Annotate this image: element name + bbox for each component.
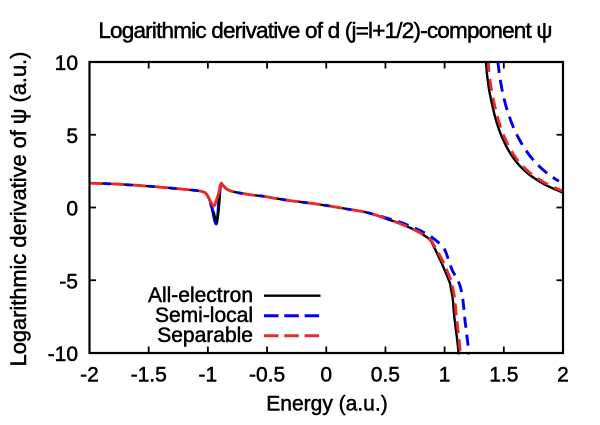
- svg-text:10: 10: [55, 52, 78, 75]
- svg-text:1.5: 1.5: [489, 363, 518, 386]
- svg-text:Logarithmic derivative of ψ (a: Logarithmic derivative of ψ (a.u.): [6, 52, 31, 367]
- svg-text:0: 0: [66, 198, 78, 221]
- svg-text:0.5: 0.5: [371, 363, 400, 386]
- svg-text:-0.5: -0.5: [249, 363, 285, 386]
- svg-text:-1.5: -1.5: [131, 363, 167, 386]
- svg-text:-2: -2: [80, 363, 99, 386]
- svg-text:-10: -10: [48, 343, 78, 366]
- svg-text:-1: -1: [199, 363, 218, 386]
- svg-text:0: 0: [320, 363, 332, 386]
- svg-text:Energy (a.u.): Energy (a.u.): [266, 393, 387, 416]
- svg-text:-5: -5: [59, 270, 78, 293]
- svg-text:1: 1: [439, 363, 451, 386]
- svg-text:Logarithmic derivative of d (j: Logarithmic derivative of d (j=l+1/2)-co…: [98, 18, 551, 43]
- svg-text:2: 2: [557, 363, 569, 386]
- svg-text:5: 5: [66, 125, 78, 148]
- svg-text:Separable: Separable: [157, 324, 253, 347]
